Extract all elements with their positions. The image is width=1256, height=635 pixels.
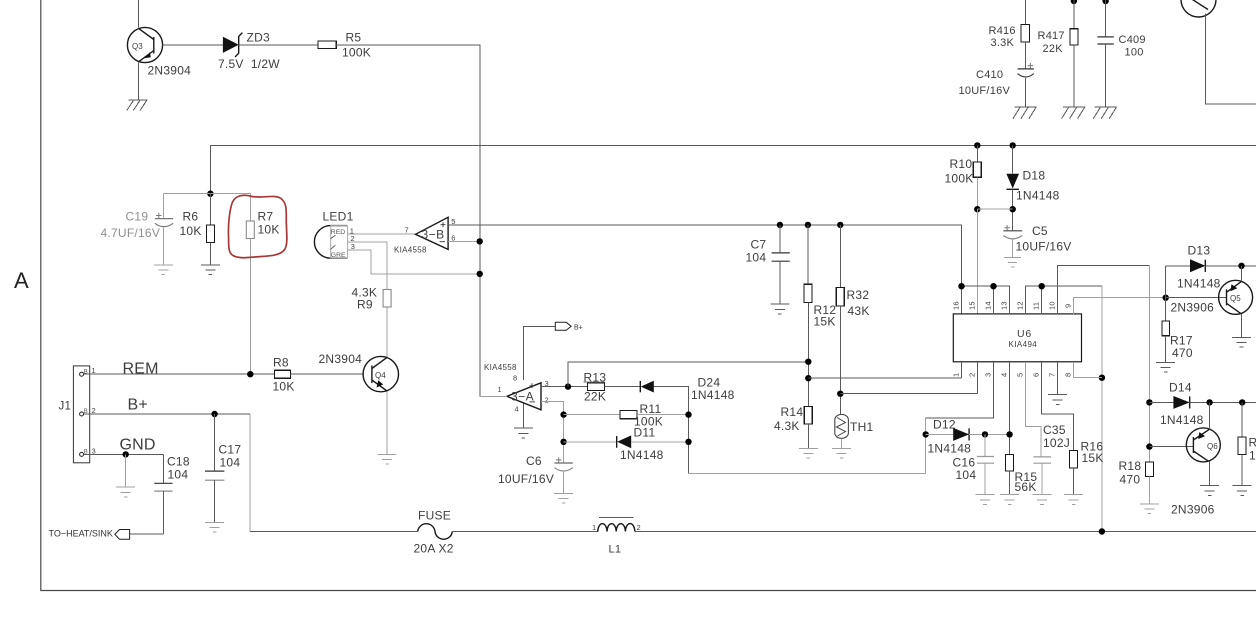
- resistor R417 22K: [1038, 0, 1078, 107]
- svg-text:15K: 15K: [1082, 451, 1104, 465]
- svg-text:6: 6: [1032, 373, 1041, 377]
- svg-text:10UF/16V: 10UF/16V: [959, 85, 1011, 97]
- wire LED1 pin2 to R9: [348, 242, 388, 290]
- resistor R9 4.3K: [352, 286, 392, 312]
- diode D14 1N4148: [1160, 381, 1204, 428]
- svg-text:1: 1: [952, 373, 961, 377]
- svg-text:7.5V 1/2W: 7.5V 1/2W: [218, 57, 280, 71]
- capacitor C7 104: [746, 225, 790, 304]
- wire U6 pin6 jog to R16: [1042, 362, 1074, 451]
- wire top-right transistor emitter to right edge: [1206, 14, 1256, 105]
- wire D12 cathode row: [969, 433, 1010, 435]
- svg-text:C5: C5: [1032, 224, 1048, 238]
- wire U6 pin1 down: [961, 362, 963, 378]
- svg-text:C17: C17: [219, 443, 242, 457]
- svg-text:1N4148: 1N4148: [928, 441, 972, 455]
- wire R13 to D24: [604, 386, 640, 388]
- svg-text:13: 13: [1000, 301, 1009, 310]
- node pin16 junction: [958, 283, 964, 289]
- wire U6 pin10 to Q6 channel: [1058, 266, 1150, 314]
- capacitor C17 104: [205, 414, 241, 522]
- transistor Q6 2N3906: [1171, 428, 1220, 517]
- svg-text:470: 470: [1172, 346, 1193, 360]
- capacitor C19 4.7UF/16V: [101, 194, 174, 265]
- svg-text:11: 11: [1032, 302, 1041, 310]
- svg-text:104: 104: [746, 251, 767, 265]
- svg-text:7: 7: [1048, 373, 1057, 377]
- wire U3-A pin8 to B+ flag: [523, 326, 555, 380]
- svg-text:LED1: LED1: [323, 210, 354, 224]
- wire GND from J1 pin3 to C18: [84, 453, 164, 455]
- wire R5 to corner down to U3-A output: [336, 45, 480, 397]
- ground below R16: [1064, 495, 1083, 505]
- wire D11 to riser: [631, 441, 689, 443]
- wire Q5 emitter riser: [1241, 266, 1243, 282]
- svg-text:2: 2: [545, 396, 549, 405]
- diode D24 1N4148: [640, 375, 734, 402]
- ground below TH1: [832, 449, 851, 459]
- svg-text:1N4148: 1N4148: [691, 388, 735, 402]
- node R11 right junction: [685, 411, 691, 417]
- op-amp U3-B KIA4558: [394, 217, 456, 254]
- wire riser x=1102 down to rail: [1101, 286, 1103, 531]
- ground below GND node: [116, 487, 135, 497]
- transistor Q (top right, partial): [1181, 0, 1216, 17]
- node pin8 riser junction: [1099, 375, 1105, 381]
- svg-text:20A X2: 20A X2: [414, 541, 454, 555]
- wire C18 to heatsink flag: [130, 533, 164, 535]
- svg-text:C19: C19: [126, 210, 149, 224]
- wire U3-A pin3 to R13 node: [541, 386, 587, 388]
- svg-text:Q4: Q4: [375, 371, 386, 380]
- node TO-HEAT/SINK flag: [49, 529, 130, 540]
- node D12 anode junction: [923, 431, 929, 437]
- red hand-drawn circle around R7: [228, 195, 286, 257]
- op-amp U6 KIA494: [953, 314, 1081, 362]
- node U3-B pin6 junction: [477, 238, 483, 244]
- svg-text:R416: R416: [989, 25, 1016, 37]
- wire Q6 emitter riser: [1209, 402, 1211, 429]
- wire R32 node to U6 pin2: [840, 393, 977, 395]
- node pin11 junction: [1039, 283, 1045, 289]
- wire R9 to Q4 collector: [386, 307, 388, 357]
- svg-text:1: 1: [592, 523, 596, 532]
- wire return path to D12 node: [689, 418, 926, 473]
- svg-text:470: 470: [1120, 473, 1141, 487]
- svg-text:22K: 22K: [1043, 43, 1064, 55]
- ground below U3-A: [514, 428, 533, 438]
- wire U6 pin8 jog: [1074, 362, 1102, 378]
- ground below R17: [1156, 362, 1175, 372]
- svg-text:22K: 22K: [584, 390, 606, 404]
- svg-text:A: A: [14, 268, 29, 293]
- svg-text:B+: B+: [128, 397, 148, 414]
- svg-text:104: 104: [168, 468, 189, 482]
- node R12/U6-pin1 junction: [805, 375, 811, 381]
- svg-text:R18: R18: [1119, 459, 1142, 473]
- capacitor C5 10UF/16V: [1003, 224, 1071, 258]
- node R417 top junction: [1071, 0, 1077, 4]
- resistor R19 (right edge, partial): [1238, 402, 1256, 485]
- resistor R15 56K: [1006, 454, 1038, 494]
- svg-text:R10: R10: [950, 157, 973, 171]
- fuse FUSE 20A X2: [414, 509, 454, 556]
- svg-text:4.3K: 4.3K: [774, 419, 800, 433]
- svg-text:1N4148: 1N4148: [1177, 276, 1221, 290]
- wire Q3 emitter to ground: [137, 62, 139, 100]
- wire D13 cathode to right edge: [1205, 265, 1256, 267]
- wire B+ corner down to fuse rail: [249, 414, 251, 532]
- wire D24 to corner riser: [654, 387, 689, 474]
- svg-text:10: 10: [1048, 301, 1057, 310]
- svg-text:4.7UF/16V: 4.7UF/16V: [101, 226, 161, 240]
- node C409 top junction: [1102, 0, 1108, 4]
- svg-text:R8: R8: [273, 355, 289, 369]
- svg-text:GND: GND: [120, 437, 156, 454]
- svg-text:C7: C7: [751, 238, 767, 252]
- node D13/Q5 emitter junction: [1238, 263, 1244, 269]
- node R10 top junction: [974, 142, 980, 148]
- resistor R17 470: [1162, 298, 1193, 363]
- wire U6 pin2 down: [976, 362, 978, 394]
- svg-text:C6: C6: [526, 454, 542, 468]
- svg-text:TO−HEAT/SINK: TO−HEAT/SINK: [49, 529, 113, 539]
- svg-text:5: 5: [1016, 373, 1025, 377]
- wire riser x=1149.4 down to R18: [1148, 266, 1150, 462]
- svg-text:2N3904: 2N3904: [319, 352, 363, 366]
- svg-text:9: 9: [1064, 304, 1073, 308]
- svg-text:2: 2: [637, 523, 641, 532]
- wire D14 cathode to right edge: [1190, 401, 1256, 403]
- svg-text:R7: R7: [258, 210, 274, 224]
- svg-text:C409: C409: [1119, 34, 1146, 46]
- node R32 top junction: [837, 222, 843, 228]
- diode D11 1N4148: [617, 426, 664, 463]
- wire D13 anode riser: [1165, 266, 1167, 298]
- ground below C410: [1013, 107, 1036, 119]
- capacitor C18 104: [154, 454, 190, 534]
- resistor R14 4.3K: [774, 405, 812, 449]
- transistor Q5 2N3906: [1171, 280, 1253, 314]
- svg-text:R14: R14: [781, 405, 804, 419]
- svg-text:KIA494: KIA494: [1009, 340, 1038, 349]
- resistor R7 10K: [246, 194, 279, 375]
- wire D11 row left: [564, 441, 617, 443]
- zener diode ZD3 7.5V 1/2W: [218, 31, 280, 72]
- svg-text:C18: C18: [167, 455, 190, 469]
- wire Q3 base to ZD3: [163, 44, 223, 46]
- node pin14 junction: [990, 283, 996, 289]
- svg-text:D14: D14: [1169, 381, 1192, 395]
- diode D13 1N4148: [1177, 243, 1221, 290]
- node pin4/C16 junction: [1006, 431, 1012, 437]
- svg-text:3−A: 3−A: [511, 389, 534, 403]
- svg-text:2N3906: 2N3906: [1171, 503, 1215, 517]
- node D11 right junction: [685, 439, 691, 445]
- resistor R13 22K: [584, 370, 607, 403]
- ground below Q6: [1200, 486, 1219, 496]
- svg-text:R13: R13: [584, 370, 607, 384]
- ground below R15: [1000, 495, 1019, 505]
- svg-text:2N3904: 2N3904: [148, 64, 192, 78]
- resistor R6 10K: [180, 194, 215, 265]
- wire Q6 collector to ground: [1209, 462, 1211, 486]
- op-amp U3-A KIA4558: [484, 363, 549, 414]
- transistor Q4 2N3904: [319, 352, 399, 392]
- svg-text:104: 104: [956, 468, 977, 482]
- svg-text:100K: 100K: [945, 172, 974, 186]
- svg-text:3.3K: 3.3K: [991, 37, 1015, 49]
- svg-text:B+: B+: [574, 324, 583, 331]
- diode D18 1N4148: [1006, 145, 1059, 230]
- svg-text:U6: U6: [1017, 328, 1032, 340]
- ground below R6: [201, 265, 220, 275]
- wire Q5 collector to ground: [1241, 314, 1243, 338]
- svg-text:D11: D11: [634, 426, 656, 440]
- wire U6 pin3 jog to D12: [926, 362, 994, 418]
- capacitor C409 100: [1097, 0, 1145, 107]
- capacitor C16 104: [953, 434, 995, 494]
- node pin2/R11 junction: [560, 411, 566, 417]
- node R10 bottom junction: [974, 206, 980, 212]
- svg-text:100: 100: [1125, 46, 1144, 58]
- svg-text:TH1: TH1: [850, 420, 873, 434]
- svg-text:R417: R417: [1038, 30, 1065, 42]
- node Q5 base junction: [1163, 295, 1169, 301]
- svg-text:8: 8: [1064, 373, 1073, 377]
- resistor R32 43K: [836, 225, 869, 415]
- capacitor C6 10UF/16V: [498, 454, 573, 494]
- svg-text:ZD3: ZD3: [247, 31, 270, 45]
- node B+ flag: [555, 322, 582, 331]
- inductor L1: [592, 518, 641, 556]
- svg-text:14: 14: [984, 301, 993, 310]
- node Q6 base junction: [1146, 443, 1152, 449]
- wire U3-B pin6 to node: [448, 240, 480, 242]
- svg-text:R: R: [1249, 436, 1256, 450]
- thermistor TH1: [835, 415, 874, 449]
- node R12 top junction: [805, 222, 811, 228]
- node LED1 pin3 junction: [477, 271, 483, 277]
- wire GND node to ground: [125, 454, 127, 487]
- ground below R14: [799, 449, 818, 459]
- svg-text:Q3: Q3: [132, 42, 143, 51]
- svg-text:R9: R9: [357, 298, 373, 312]
- svg-text:D18: D18: [1023, 169, 1046, 183]
- wire REM from J1 pin1 to R8: [84, 373, 275, 375]
- node R32/U6-pin2 junction: [837, 391, 843, 397]
- wire LED1 pin1 to U3-B output: [348, 233, 416, 235]
- svg-text:KIA4558: KIA4558: [484, 363, 517, 372]
- wire R10 node down to U6 pin15: [976, 209, 978, 314]
- svg-text:Q6: Q6: [1207, 442, 1218, 451]
- wire R11 to riser: [637, 414, 689, 416]
- wire R12 node to U6 pin1: [808, 377, 961, 379]
- svg-text:8: 8: [513, 374, 517, 383]
- svg-text:12: 12: [1016, 301, 1025, 310]
- wire Q6 base: [1149, 446, 1193, 448]
- wire U6 pin7 to ground: [1057, 362, 1059, 395]
- svg-text:15K: 15K: [814, 314, 836, 328]
- svg-text:REM: REM: [123, 360, 159, 377]
- svg-text:3: 3: [984, 373, 993, 377]
- transistor Q3: [127, 27, 191, 77]
- svg-text:4: 4: [515, 405, 519, 414]
- ground below C7: [770, 304, 789, 314]
- wire seg pins 12-11 to right riser: [1026, 286, 1102, 314]
- node Q6 emitter junction: [1206, 399, 1212, 405]
- wire B+ rail bottom: [250, 531, 1256, 533]
- diode D12 1N4148: [928, 418, 972, 456]
- svg-text:1N4148: 1N4148: [1160, 413, 1204, 427]
- node REM/R7 junction: [247, 371, 253, 377]
- node D14 anode junction: [1146, 399, 1152, 405]
- resistor R5 100K: [318, 31, 371, 60]
- node C16 junction: [982, 431, 988, 437]
- resistor R8 10K: [273, 355, 295, 393]
- resistor R416 3.3K: [989, 0, 1030, 69]
- node D18/C5 junction: [1010, 206, 1016, 212]
- svg-text:FUSE: FUSE: [418, 509, 451, 523]
- wire main rail y=145: [210, 145, 1256, 193]
- svg-text:43K: 43K: [848, 304, 870, 318]
- ground below Q3: [127, 100, 148, 110]
- svg-text:R32: R32: [847, 288, 870, 302]
- wire U3-A output to riser: [480, 395, 507, 397]
- capacitor C410 10UF/16V: [959, 63, 1034, 107]
- node R12/R13 junction: [805, 359, 811, 365]
- wire ZD3 to R5: [239, 44, 318, 46]
- svg-text:10UF/16V: 10UF/16V: [1016, 239, 1072, 253]
- resistor R16 15K: [1070, 440, 1104, 495]
- svg-text:1: 1: [498, 385, 502, 394]
- ground below C35: [1033, 495, 1052, 505]
- wire Q5 base: [1166, 297, 1227, 299]
- svg-text:10K: 10K: [258, 223, 280, 237]
- node C7 top junction: [777, 222, 783, 228]
- node pin3/R13 junction: [565, 383, 571, 389]
- svg-text:RED: RED: [331, 229, 345, 236]
- node D18 top junction: [1010, 142, 1016, 148]
- wire Q4 emitter to ground: [386, 392, 388, 455]
- wire U3-A pin4 to ground: [522, 404, 524, 429]
- wire U3-B pin5 to U6 pin16 riser: [448, 225, 961, 314]
- svg-text:2: 2: [967, 373, 976, 377]
- wire R10 bottom to D18 node: [977, 208, 1012, 210]
- svg-text:L1: L1: [609, 543, 622, 555]
- resistor R18 470: [1119, 459, 1154, 504]
- node riser/rail junction: [1099, 528, 1105, 534]
- wire U6 pin9 to Q5 base: [1074, 298, 1166, 314]
- wire LED1 pin3 to node: [348, 250, 480, 274]
- svg-text:15: 15: [967, 301, 976, 310]
- node R6/R7/C19 junction: [207, 191, 213, 197]
- ground below C17: [205, 522, 224, 532]
- svg-text:D12: D12: [933, 418, 956, 432]
- svg-text:1N4148: 1N4148: [620, 448, 664, 462]
- capacitor C35 102J: [1033, 423, 1070, 495]
- LED1: [314, 210, 355, 260]
- wire U6 pin5 jog to C35: [1026, 362, 1042, 457]
- wire pin3 node up to R12 node: [568, 362, 808, 387]
- ground below Q5: [1232, 338, 1251, 348]
- svg-text:2N3906: 2N3906: [1171, 301, 1215, 315]
- wire U6 pin4 down to R15: [1009, 362, 1011, 455]
- svg-text:4: 4: [1000, 373, 1009, 377]
- ground below C6: [554, 493, 573, 503]
- svg-text:J1: J1: [59, 401, 72, 413]
- wire U3-A pin2 jog down: [541, 401, 564, 462]
- svg-text:104: 104: [220, 456, 241, 470]
- svg-text:Q5: Q5: [1230, 294, 1241, 303]
- wire D14 anode row: [1149, 401, 1173, 403]
- svg-text:KIA4558: KIA4558: [394, 245, 427, 254]
- svg-text:56K: 56K: [1015, 480, 1037, 494]
- wire Q3 collector riser: [137, 0, 139, 28]
- node D11/C6 junction: [560, 439, 566, 445]
- wire R8 to Q4 base: [291, 373, 364, 375]
- ground below U6 pin7: [1048, 395, 1067, 405]
- ground below R417: [1062, 107, 1085, 119]
- wire B+ from J1 pin2: [84, 413, 251, 415]
- svg-text:C410: C410: [976, 69, 1003, 81]
- resistor R10 100K: [945, 145, 982, 209]
- svg-text:16: 16: [952, 301, 961, 310]
- svg-text:10K: 10K: [180, 224, 202, 238]
- connector J1: [59, 366, 96, 463]
- wire node to C19 and R7 (gray): [163, 193, 250, 195]
- svg-text:100K: 100K: [342, 46, 371, 60]
- svg-text:GRE: GRE: [331, 252, 346, 259]
- svg-text:1N4148: 1N4148: [1016, 189, 1060, 203]
- ground below right resistor: [1233, 486, 1252, 496]
- resistor R11 100K: [620, 402, 663, 428]
- wire R11 row: [564, 414, 621, 416]
- ground below C409: [1093, 107, 1116, 119]
- wire D13 anode row: [1166, 265, 1190, 267]
- node GND junction: [123, 451, 129, 457]
- svg-text:1: 1: [1249, 449, 1256, 463]
- wire seg pins 16-14-13: [962, 286, 1010, 314]
- wire D12 anode row: [926, 433, 954, 435]
- node B+/C17 junction: [211, 411, 217, 417]
- ground below C5: [1004, 258, 1021, 267]
- svg-text:R5: R5: [346, 31, 362, 45]
- ground below Q4: [378, 454, 397, 464]
- svg-text:3−B: 3−B: [422, 228, 445, 242]
- ground below R18: [1140, 504, 1159, 514]
- svg-text:D13: D13: [1188, 243, 1211, 257]
- ground below C16: [976, 495, 995, 505]
- svg-text:10K: 10K: [273, 380, 295, 394]
- svg-text:7: 7: [405, 225, 409, 234]
- svg-text:R6: R6: [183, 210, 199, 224]
- resistor R12 15K: [804, 225, 836, 407]
- svg-text:10UF/16V: 10UF/16V: [498, 472, 554, 486]
- ground below C19: [154, 265, 173, 275]
- svg-text:102J: 102J: [1043, 436, 1070, 450]
- node right resistor junction: [1239, 399, 1245, 405]
